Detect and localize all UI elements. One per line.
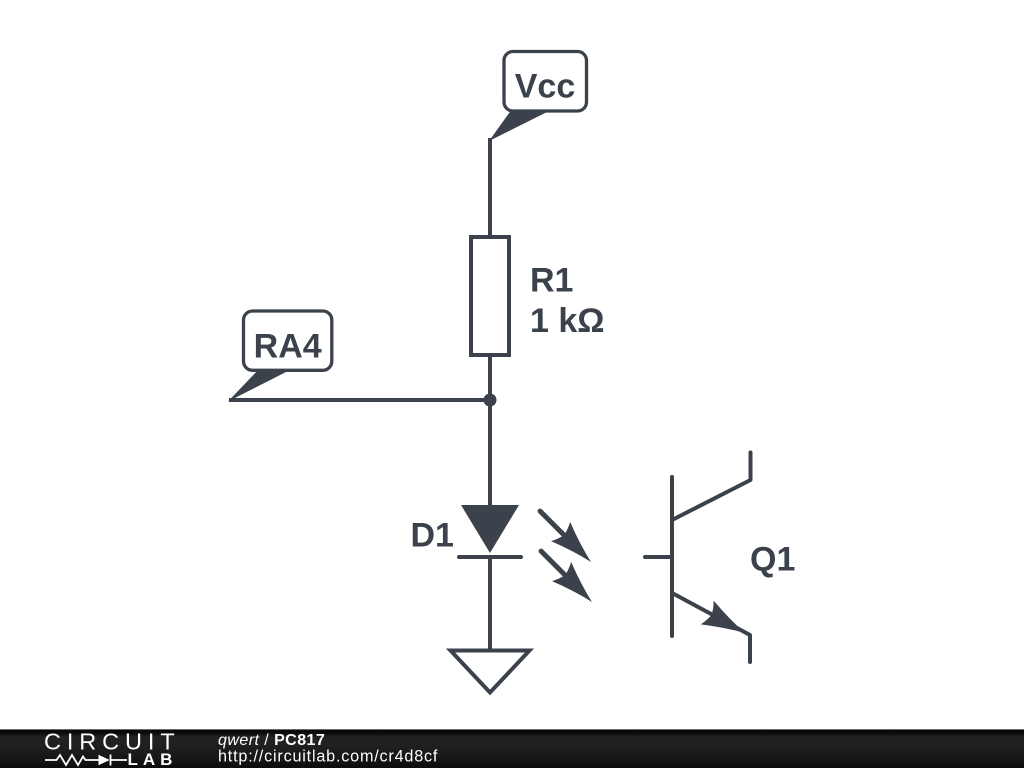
LED D1 triangle — [461, 505, 519, 553]
node junction dot — [484, 394, 497, 407]
net flag RA4 — [228, 311, 332, 402]
LED D1 cathode bar — [459, 555, 521, 559]
net flag Vcc — [489, 52, 587, 142]
ground — [451, 651, 530, 693]
wire D1 cathode to ground — [488, 557, 492, 651]
resistor R1 — [471, 237, 509, 355]
svg-text:LAB: LAB — [128, 750, 178, 768]
footer bar — [0, 729, 1024, 768]
Q1 collector — [674, 453, 751, 520]
LED light arrow 2 — [532, 542, 602, 612]
svg-text:Vcc: Vcc — [515, 67, 576, 105]
svg-text:RA4: RA4 — [254, 328, 322, 366]
CircuitLab logo: resistor-diode glyph — [45, 755, 127, 766]
Q1 base bar — [670, 477, 674, 636]
wire node to D1 anode — [488, 400, 492, 507]
wire Vcc flag to R1 top — [488, 138, 492, 240]
wire RA4 to node — [229, 398, 490, 402]
svg-text:Q1: Q1 — [750, 541, 795, 579]
svg-text:D1: D1 — [411, 517, 454, 555]
LED light arrow 1 — [531, 502, 601, 572]
Q1 emitter — [674, 594, 750, 662]
svg-text:R1: R1 — [530, 262, 573, 300]
svg-text:http://circuitlab.com/cr4d8cf: http://circuitlab.com/cr4d8cf — [218, 747, 438, 765]
svg-text:1 kΩ: 1 kΩ — [530, 302, 605, 340]
svg-text:qwert / PC817: qwert / PC817 — [218, 732, 325, 749]
Q1 base stub — [645, 555, 672, 559]
CircuitLab logo: diode triangle — [99, 755, 110, 765]
wire R1 bottom to node — [488, 353, 492, 402]
label R1 value — [530, 262, 605, 341]
Q1 emitter arrowhead — [701, 601, 752, 645]
phototransistor Q1 — [645, 453, 751, 663]
